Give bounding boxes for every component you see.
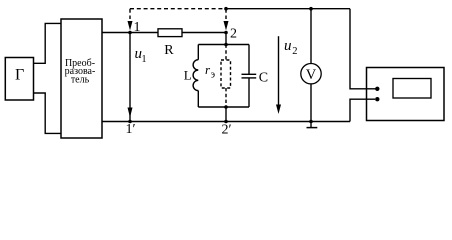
svg-text:2: 2 xyxy=(230,27,237,42)
dashed probe line from node 1 up xyxy=(129,9,131,19)
wire bottom rail up to scope lower terminal xyxy=(350,99,375,121)
svg-text:L: L xyxy=(184,68,192,83)
svg-text:u: u xyxy=(284,38,292,54)
voltmeter top lead xyxy=(310,9,312,64)
label r_e xyxy=(205,62,215,81)
generator G box xyxy=(5,58,33,101)
label u1 xyxy=(135,46,147,65)
junction dot tank bottom xyxy=(224,105,228,109)
svg-text:2: 2 xyxy=(292,46,297,57)
dashed wire out of r_e box xyxy=(225,88,227,107)
junction dot tank top xyxy=(224,43,228,47)
node 2' junction dot xyxy=(224,120,228,124)
top wire node 2 to scope xyxy=(226,8,350,10)
dashed probe line from node 2 up xyxy=(225,9,227,19)
capacitor C plates xyxy=(242,73,257,75)
svg-text:Г: Г xyxy=(15,67,24,84)
label Преоб-разова-тель xyxy=(65,58,96,86)
voltmeter bottom lead xyxy=(310,84,312,122)
svg-text:1: 1 xyxy=(134,20,141,35)
svg-text:1′: 1′ xyxy=(126,122,136,137)
wire generator top output to converter input xyxy=(34,23,62,63)
oscilloscope screen xyxy=(393,79,431,99)
converter (Преобразователь) box xyxy=(61,19,102,138)
resistor R xyxy=(158,29,182,37)
voltage arrow u2 xyxy=(278,36,280,110)
junction dot voltmeter bottom xyxy=(309,120,313,124)
label u2 xyxy=(284,38,297,57)
svg-text:V: V xyxy=(306,67,317,83)
scope lower terminal dot xyxy=(375,97,379,101)
dashed probe arrowhead into node 1 xyxy=(128,21,133,31)
svg-text:C: C xyxy=(259,71,268,86)
voltmeter V xyxy=(301,63,321,83)
capacitor C lower lead xyxy=(248,78,250,107)
resistor r_e dashed box xyxy=(221,60,231,88)
dashed wire into r_e box xyxy=(225,45,227,61)
capacitor C branch upper lead xyxy=(248,45,250,75)
dashed probe line horizontal node1 to node2 xyxy=(130,8,226,10)
junction dot node 2 top xyxy=(224,7,228,11)
wire top line down to scope upper terminal xyxy=(350,9,376,89)
tank circuit top bar xyxy=(198,44,249,46)
wire tank bottom to node 2' xyxy=(225,107,227,122)
scope upper terminal dot xyxy=(375,87,379,91)
wire node 2 down to tank top bar xyxy=(225,33,227,45)
node 1 junction dot xyxy=(128,31,132,35)
svg-text:R: R xyxy=(164,43,174,58)
inductor L branch xyxy=(197,45,199,60)
voltage arrow u1 from node 1 to node 1' xyxy=(129,33,131,122)
node 1' junction dot xyxy=(128,120,132,124)
bottom rail wire xyxy=(102,121,350,123)
wire resistor to node 2 xyxy=(182,32,226,34)
svg-text:2′: 2′ xyxy=(222,123,232,138)
ground symbol xyxy=(310,122,312,128)
junction dot voltmeter top xyxy=(309,7,313,11)
svg-text:э: э xyxy=(211,70,215,81)
dashed probe arrowhead into node 2 xyxy=(224,21,229,31)
node 2 junction dot xyxy=(224,31,228,35)
svg-text:тель: тель xyxy=(71,75,90,86)
tank circuit bottom bar xyxy=(198,106,249,108)
oscilloscope box xyxy=(367,68,445,121)
svg-text:1: 1 xyxy=(142,54,147,65)
wire generator bottom output to converter input xyxy=(34,93,62,133)
wire converter output to resistor xyxy=(102,32,158,34)
